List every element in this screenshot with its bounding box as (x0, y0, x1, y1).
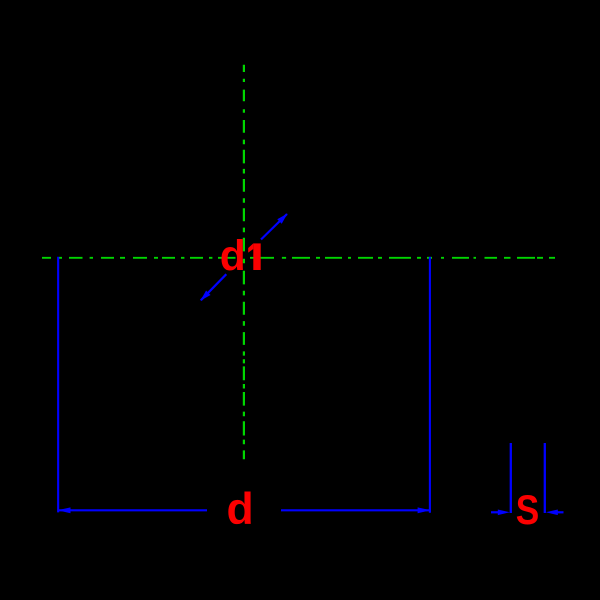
S right arrowhead (546, 510, 558, 516)
S left extension line (510, 443, 512, 513)
d1 leader upper arrowhead (277, 214, 287, 224)
part right edge (extension line) (429, 257, 431, 513)
dimension d line left segment (59, 509, 207, 511)
svg-text:d: d (220, 233, 246, 280)
d1 leader upper segment (261, 214, 287, 240)
label d1 digit 1 flag (248, 243, 253, 252)
S right extension line (544, 443, 546, 513)
svg-text:d: d (227, 485, 254, 534)
part left edge (extension line) (57, 257, 59, 513)
S right arrow tail (557, 511, 564, 513)
dimension d line right segment (281, 509, 430, 511)
dimension d left arrowhead (58, 507, 71, 513)
d1 leader lower segment (201, 274, 227, 300)
d1 leader lower arrowhead (200, 291, 210, 301)
horizontal centerline (42, 257, 555, 259)
S left arrowhead (498, 510, 510, 516)
S left arrow tail (491, 511, 499, 513)
vertical centerline (243, 65, 245, 460)
svg-text:S: S (516, 486, 540, 533)
label d1 digit 1 stem (253, 243, 260, 270)
dimension d right arrowhead (418, 507, 431, 513)
